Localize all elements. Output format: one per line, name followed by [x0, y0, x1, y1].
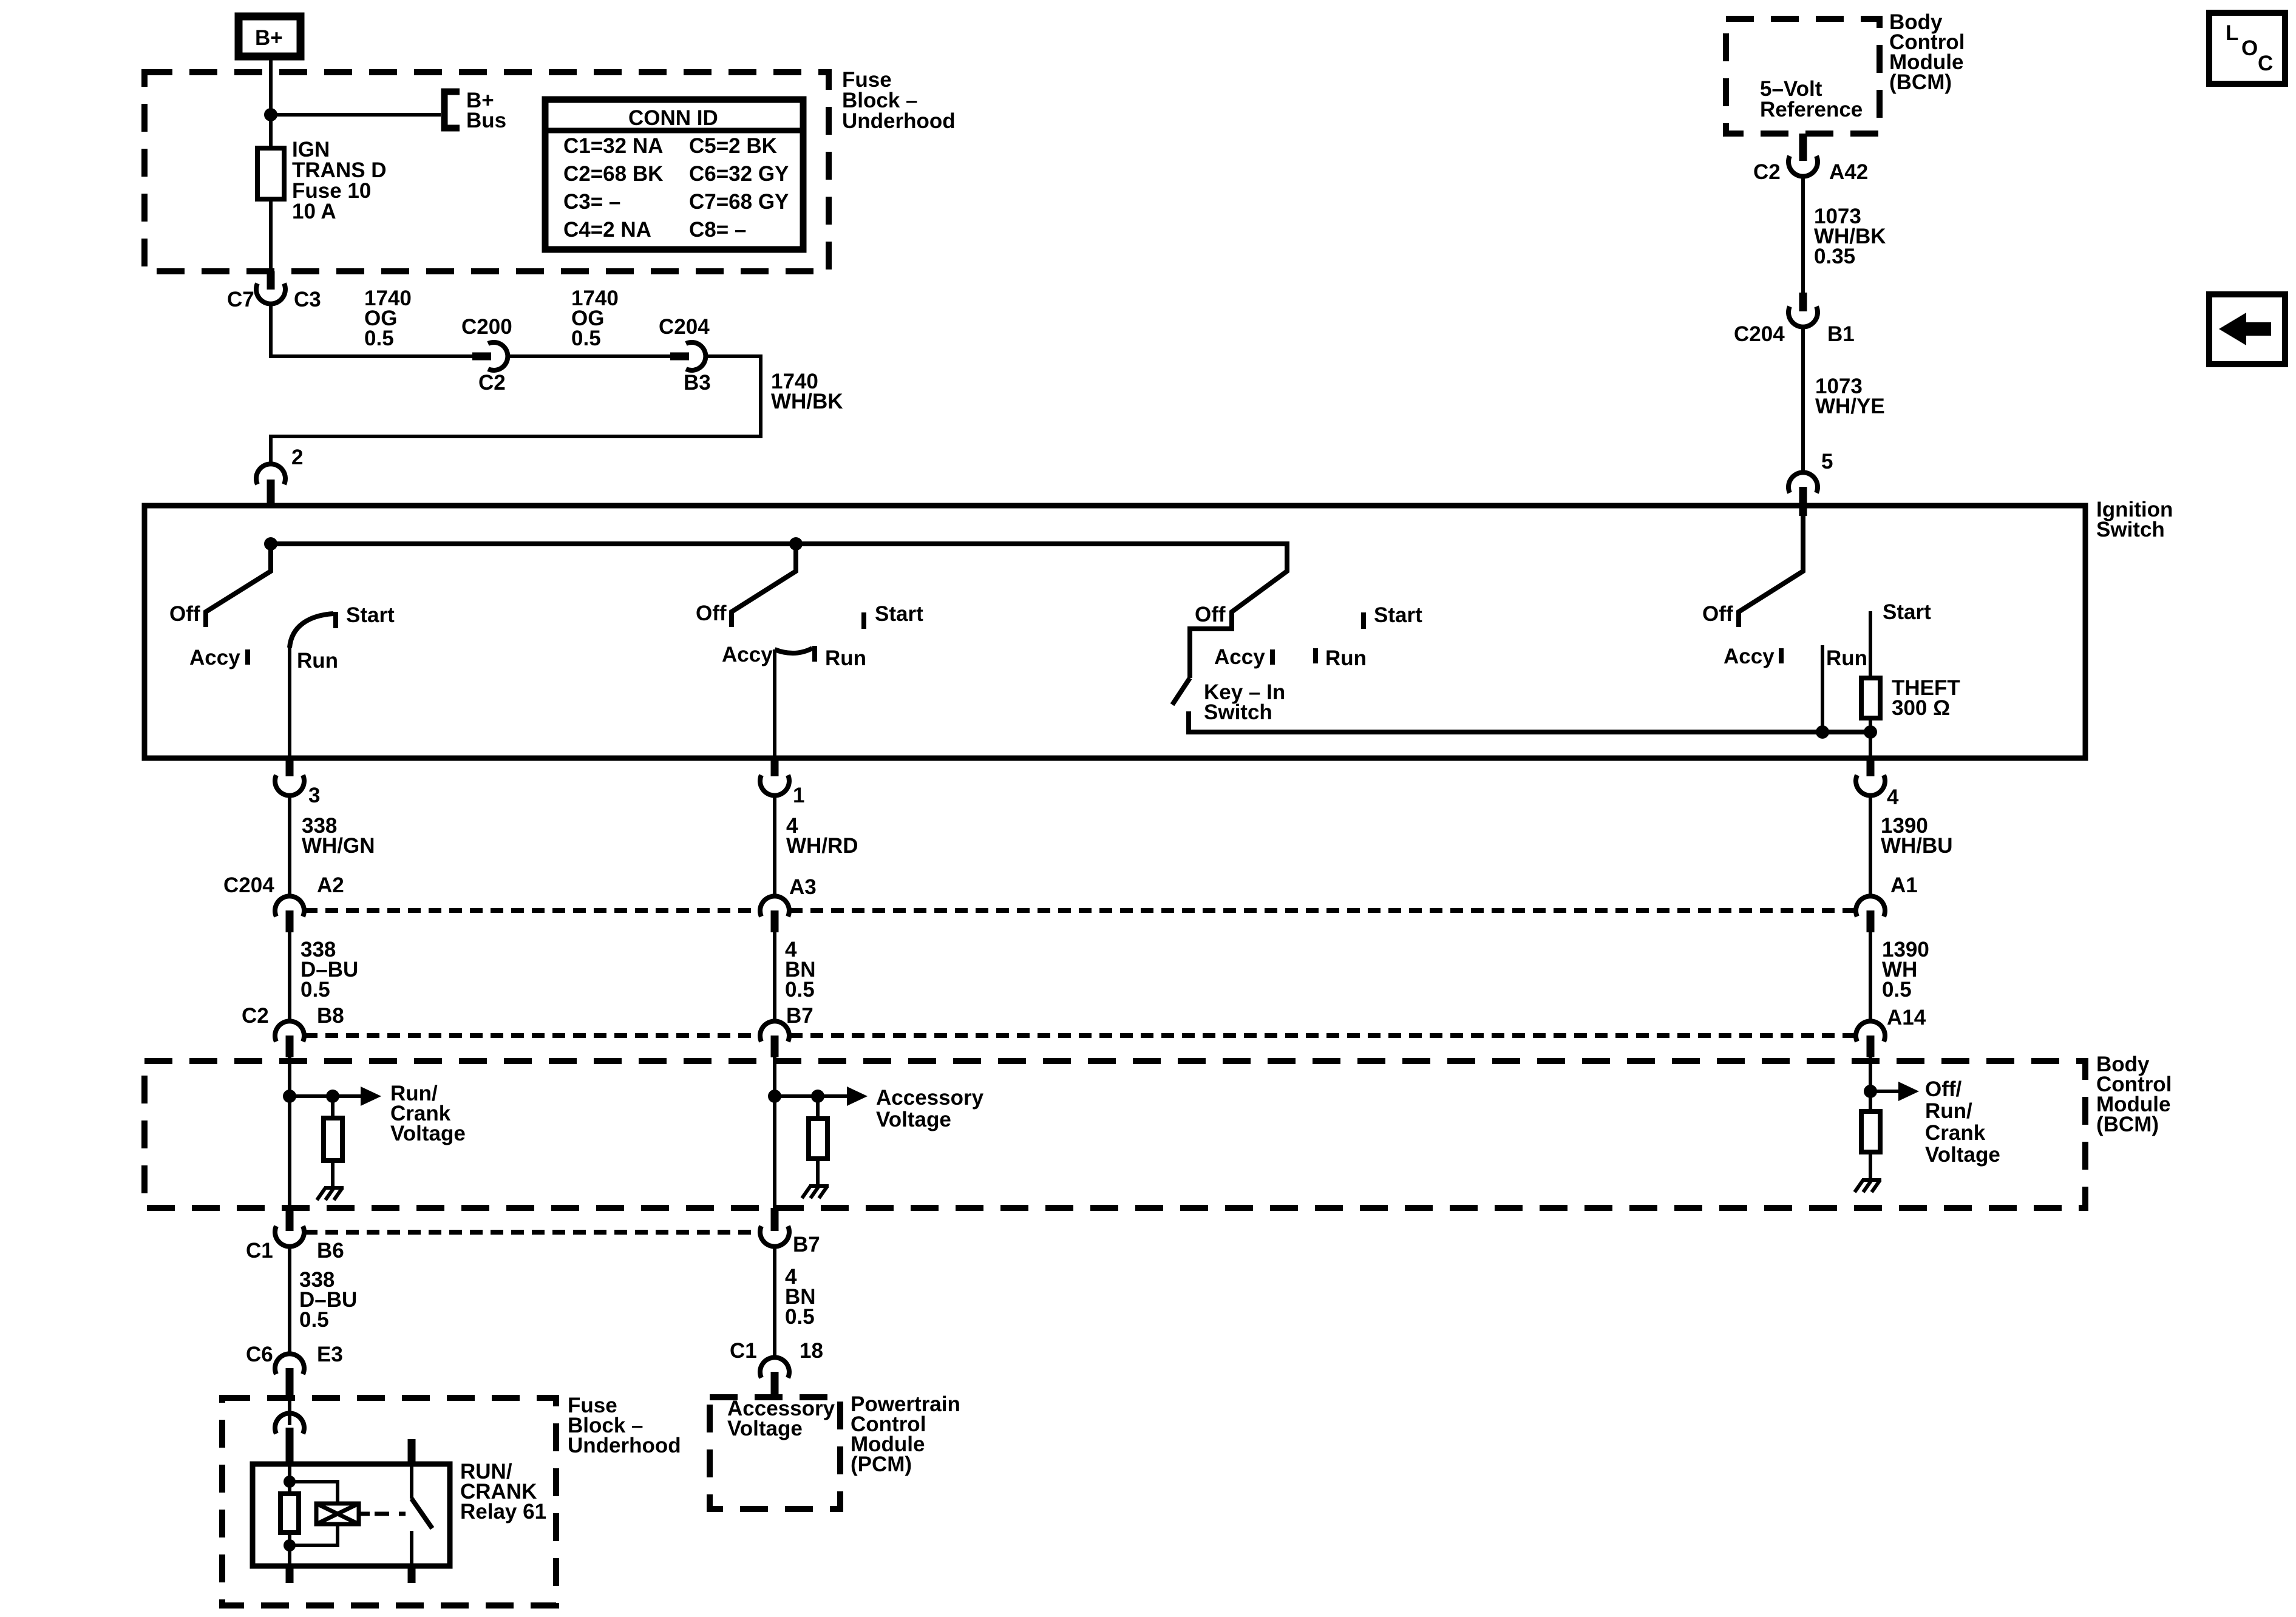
node relay bottom junction: [284, 1539, 296, 1551]
svg-text:C: C: [2258, 52, 2273, 75]
resistor BCM left: [324, 1096, 342, 1188]
relay actuator dashed link: [375, 1512, 406, 1516]
wire pole2 Accy down: [773, 649, 776, 758]
svg-text:0.5: 0.5: [1882, 978, 1912, 1002]
wire left column through BCM: [288, 1057, 291, 1208]
wire 1073 WH/YE: [1801, 327, 1805, 472]
label 4 BN 0.5: [785, 938, 816, 1002]
contact Run pole2: [812, 646, 817, 662]
label C204 B1: [1734, 322, 1855, 346]
label Accessory Voltage: [876, 1086, 984, 1131]
arrow off/run/crank voltage: [1870, 1082, 1919, 1101]
label BCM top: [1889, 10, 1965, 94]
label C204 B3: [659, 315, 711, 395]
label C7 C3: [227, 288, 321, 311]
relay pin bottom right: [408, 1566, 416, 1583]
svg-text:B+: B+: [255, 26, 283, 50]
wire right column into BCM: [1869, 1057, 1872, 1111]
svg-text:Start: Start: [875, 602, 923, 626]
fuse block underhood box (bottom): [222, 1398, 556, 1605]
svg-text:300 Ω: 300 Ω: [1892, 696, 1950, 720]
svg-text:Voltage: Voltage: [727, 1417, 803, 1440]
battery terminal B+: [239, 16, 301, 56]
label PCM: [851, 1392, 960, 1476]
svg-text:Run: Run: [1325, 646, 1367, 670]
svg-text:Run/: Run/: [1925, 1099, 1972, 1123]
svg-text:Accy: Accy: [1724, 645, 1775, 668]
svg-text:3: 3: [308, 784, 320, 807]
svg-text:C3: C3: [294, 288, 321, 311]
svg-text:Accy: Accy: [189, 646, 240, 670]
svg-text:C2: C2: [242, 1004, 269, 1028]
wire Run contact pole4: [1821, 645, 1824, 732]
label C2 B8: [242, 1004, 344, 1028]
svg-text:0.5: 0.5: [299, 1308, 329, 1332]
svg-text:Relay 61: Relay 61: [460, 1500, 546, 1524]
svg-text:Off: Off: [1195, 603, 1226, 626]
svg-text:C1: C1: [246, 1239, 273, 1263]
switch pole4 blade to Off: [1739, 506, 1803, 627]
svg-text:Bus: Bus: [466, 109, 506, 132]
connector pin 4: [1856, 758, 1885, 796]
svg-text:Accy: Accy: [1214, 645, 1265, 669]
wire 338 D-BU: [288, 932, 291, 1022]
relay solenoid X-box: [316, 1503, 359, 1524]
wire to B+ Bus: [271, 113, 441, 117]
wire internal bus: [271, 544, 1287, 678]
svg-text:WH/BU: WH/BU: [1881, 834, 1953, 858]
svg-text:18: 18: [800, 1339, 823, 1363]
key-in switch blade (open): [1172, 678, 1190, 705]
label C200 C2: [461, 315, 512, 395]
label THEFT 300: [1892, 676, 1960, 720]
svg-text:C4=2 NA: C4=2 NA: [563, 218, 651, 242]
connector A3: [760, 896, 789, 932]
contact Run pole3: [1313, 648, 1318, 663]
svg-text:A2: A2: [317, 873, 344, 897]
svg-text:WH/GN: WH/GN: [302, 834, 375, 858]
switch pole2 blade to Off: [732, 544, 796, 627]
svg-text:C2: C2: [1753, 160, 1781, 184]
connector C7/C3: [256, 271, 285, 304]
wire 4 BN: [773, 932, 776, 1022]
relay pin bottom left: [286, 1566, 294, 1583]
ground BCM left: [317, 1188, 344, 1200]
arrow box: [2209, 294, 2285, 364]
label 5-Volt Reference: [1760, 77, 1863, 121]
svg-text:Crank: Crank: [1925, 1121, 1986, 1145]
wire C204 loop down to pin 2: [271, 356, 761, 465]
node bus junction pole1: [264, 537, 277, 551]
svg-text:C8= –: C8= –: [689, 218, 746, 242]
label 338 WH/GN: [302, 814, 375, 858]
connector C204 B1: [1788, 293, 1818, 327]
svg-text:C2: C2: [478, 371, 506, 395]
contact Accy pole3: [1270, 649, 1275, 665]
relay coil branch wire: [288, 1464, 291, 1566]
node theft junction: [1864, 725, 1877, 739]
svg-text:Start: Start: [1374, 603, 1422, 627]
connector C1 18: [760, 1357, 789, 1397]
svg-text:Start: Start: [346, 603, 395, 627]
wire THEFT to junction: [1869, 718, 1872, 758]
wire 1073 WH/BK: [1801, 177, 1805, 293]
label fuse block underhood (top): [842, 68, 956, 133]
label 1390 WH 0.5: [1882, 938, 1929, 1002]
label C204 A2: [223, 873, 344, 897]
ground BCM right: [1855, 1180, 1881, 1192]
svg-text:0.5: 0.5: [301, 978, 330, 1002]
wire E3 into fuse block: [288, 1396, 291, 1425]
BCM 5-volt reference box: [1726, 19, 1880, 134]
connector C204/B3: [670, 342, 705, 370]
connector pin 2: [256, 464, 285, 506]
svg-text:C204: C204: [659, 315, 710, 339]
label 1740 OG 0.5 (1): [364, 286, 412, 350]
node run/crank junction: [283, 1090, 296, 1103]
wire 4 BN lower: [773, 1247, 776, 1358]
svg-text:Reference: Reference: [1760, 98, 1863, 121]
svg-text:B7: B7: [793, 1233, 820, 1256]
svg-text:Start: Start: [1883, 600, 1931, 624]
connector A14: [1856, 1021, 1885, 1057]
label 4 WH/RD: [786, 814, 858, 858]
svg-text:C3= –: C3= –: [563, 190, 620, 214]
connector A1: [1856, 896, 1885, 932]
svg-text:C1=32 NA: C1=32 NA: [563, 134, 663, 158]
relay solenoid branch: [290, 1482, 338, 1545]
svg-text:B1: B1: [1827, 322, 1855, 346]
svg-text:0.5: 0.5: [571, 327, 601, 350]
relay switch blade: [412, 1499, 432, 1528]
fuse block underhood box (top): [144, 72, 829, 271]
svg-text:C2=68 BK: C2=68 BK: [563, 162, 663, 186]
svg-text:Switch: Switch: [2096, 518, 2165, 541]
svg-text:Switch: Switch: [1204, 700, 1272, 724]
svg-text:Run: Run: [1826, 646, 1867, 670]
node off/run/crank junction: [1864, 1085, 1877, 1098]
wire 338 D-BU lower: [288, 1247, 291, 1355]
svg-text:C6=32 GY: C6=32 GY: [689, 162, 789, 186]
svg-text:B3: B3: [684, 371, 711, 395]
svg-text:Run: Run: [825, 646, 866, 670]
svg-text:(BCM): (BCM): [2096, 1113, 2159, 1136]
svg-text:Off/: Off/: [1925, 1077, 1962, 1101]
label Accessory Voltage PCM: [727, 1397, 835, 1440]
arrow accessory voltage: [775, 1086, 868, 1106]
svg-text:A1: A1: [1890, 873, 1918, 897]
svg-text:Off: Off: [696, 602, 727, 625]
svg-text:B6: B6: [317, 1239, 344, 1263]
svg-text:C200: C200: [461, 315, 512, 339]
wire B+ to fuse: [269, 56, 273, 152]
switch pole1 Run-Start curve: [290, 614, 333, 648]
svg-text:0.5: 0.5: [785, 1305, 815, 1329]
label Run/Crank Voltage: [390, 1082, 466, 1145]
connector pin 3: [275, 758, 304, 796]
svg-text:0.5: 0.5: [364, 327, 394, 350]
LOC box: [2209, 13, 2285, 84]
svg-text:C1: C1: [730, 1339, 757, 1363]
wire 1390 WH/BU: [1869, 796, 1872, 897]
wire relay coil to actuator: [359, 1512, 370, 1516]
label Key-In Switch: [1204, 680, 1285, 724]
node run junction: [1816, 725, 1829, 739]
node accessory junction: [768, 1090, 781, 1103]
svg-text:0.5: 0.5: [785, 978, 815, 1002]
relay box RUN/CRANK Relay 61: [253, 1464, 450, 1566]
svg-text:A3: A3: [789, 875, 817, 899]
svg-text:(PCM): (PCM): [851, 1453, 912, 1476]
wire fuse to C200: [271, 303, 472, 356]
svg-text:10 A: 10 A: [292, 200, 336, 223]
label Off/Run/Crank Voltage: [1925, 1077, 2000, 1167]
svg-text:2: 2: [291, 446, 303, 469]
BCM box: [144, 1061, 2085, 1208]
label C2 A42: [1753, 160, 1868, 184]
label C1 18: [730, 1339, 823, 1363]
svg-text:4: 4: [1887, 785, 1899, 809]
switch pole1 blade to Off: [206, 544, 271, 627]
svg-text:Voltage: Voltage: [1925, 1143, 2000, 1167]
svg-text:B7: B7: [786, 1004, 813, 1028]
wire pin1 column: [760, 758, 789, 796]
relay switch fixed bottom: [410, 1531, 413, 1566]
svg-text:L: L: [2226, 21, 2238, 45]
svg-text:Voltage: Voltage: [876, 1108, 951, 1131]
svg-text:WH/RD: WH/RD: [786, 834, 858, 858]
connector C2 B8: [275, 1021, 304, 1057]
wire middle column through BCM: [773, 1057, 776, 1208]
contact Start pole3: [1361, 612, 1366, 629]
label 4 BN 0.5 lower: [785, 1265, 816, 1329]
resistor BCM middle: [809, 1096, 827, 1186]
svg-text:C204: C204: [1734, 322, 1785, 346]
svg-text:C5=2 BK: C5=2 BK: [689, 134, 777, 158]
label fuse: [292, 138, 387, 223]
label 1073 WH/BK 0.35: [1814, 205, 1886, 268]
svg-text:Off: Off: [169, 602, 200, 626]
svg-text:5: 5: [1821, 450, 1833, 473]
wire pole1 Run down: [288, 646, 291, 758]
svg-text:1: 1: [793, 784, 804, 807]
label 338 D-BU 0.5: [301, 938, 358, 1002]
resistor BCM right: [1861, 1111, 1880, 1180]
svg-text:C6: C6: [246, 1343, 273, 1366]
svg-text:Off: Off: [1702, 602, 1733, 626]
node bus junction pole2: [789, 537, 803, 551]
switch pole2 Accy-Run curve: [775, 648, 812, 653]
svg-text:E3: E3: [317, 1343, 343, 1366]
relay switch pin top: [408, 1439, 416, 1464]
svg-text:A42: A42: [1829, 160, 1868, 184]
svg-text:Accessory: Accessory: [876, 1086, 984, 1110]
contact Start pole2: [861, 612, 866, 629]
connector B7 below BCM: [760, 1208, 789, 1247]
connector C204 A2: [275, 896, 304, 932]
wire 1390 WH: [1869, 932, 1872, 1022]
label Ignition Switch: [2096, 498, 2173, 541]
CONN ID table: [545, 100, 803, 249]
svg-text:0.35: 0.35: [1814, 245, 1855, 268]
resistor relay coil: [280, 1494, 299, 1533]
contact Start pole1: [333, 612, 338, 628]
svg-text:WH/BK: WH/BK: [771, 390, 843, 413]
connector row line 3: [305, 1230, 759, 1235]
label BCM right: [2096, 1053, 2172, 1136]
svg-text:Voltage: Voltage: [390, 1122, 466, 1145]
svg-text:O: O: [2241, 36, 2258, 60]
connector row line 1: [305, 908, 1855, 913]
label C1 B6: [246, 1239, 344, 1263]
node relay top junction: [284, 1476, 296, 1488]
label 1740 OG 0.5 (2): [571, 286, 619, 350]
svg-text:C7: C7: [227, 288, 254, 311]
resistor THEFT 300 ohm: [1861, 678, 1880, 718]
arrow run/crank voltage: [290, 1086, 381, 1106]
connector C1 B6: [275, 1208, 304, 1247]
wire 338 WH/GN: [288, 796, 291, 897]
svg-text:CONN ID: CONN ID: [628, 106, 718, 130]
svg-text:B8: B8: [317, 1004, 344, 1028]
contact Accy pole4: [1779, 648, 1784, 663]
connector relay coil pin: [275, 1413, 304, 1464]
label 1740 WH/BK: [771, 370, 843, 413]
PCM box: [710, 1397, 840, 1509]
wire C200 to C204: [506, 354, 670, 358]
label RUN/CRANK Relay 61: [460, 1460, 546, 1524]
fuse IGN TRANS D Fuse 10: [257, 148, 284, 271]
label C6 E3: [246, 1343, 343, 1366]
connector pin 5: [1788, 472, 1818, 516]
label 1390 WH/BU: [1881, 814, 1953, 858]
wire key-in lower contact to theft junction: [1189, 711, 1870, 732]
svg-text:Underhood: Underhood: [842, 109, 956, 133]
contact Accy pole1: [245, 649, 250, 665]
label fuse block underhood (bottom): [568, 1394, 681, 1457]
connector row line 2: [305, 1033, 1855, 1038]
wire 4 WH/RD: [773, 796, 776, 897]
label 338 D-BU 0.5 lower: [299, 1268, 357, 1332]
svg-text:C204: C204: [223, 873, 274, 897]
svg-text:C7=68 GY: C7=68 GY: [689, 190, 789, 214]
connector B7 row2: [760, 1021, 789, 1057]
relay switch fixed top: [410, 1464, 413, 1499]
svg-text:Underhood: Underhood: [568, 1434, 681, 1457]
B+ Bus terminal bracket: [444, 92, 460, 128]
svg-text:Run: Run: [297, 649, 338, 673]
ground BCM middle: [802, 1186, 829, 1198]
ignition switch box: [144, 506, 2085, 758]
node junction B+ bus: [264, 108, 277, 121]
svg-text:WH/YE: WH/YE: [1815, 395, 1885, 418]
svg-text:Accy: Accy: [722, 643, 773, 666]
connector C200/C2: [472, 342, 508, 370]
wire Start contact pole4: [1869, 611, 1872, 680]
connector C2 A42: [1788, 134, 1818, 177]
svg-text:A14: A14: [1887, 1006, 1926, 1029]
label 1073 WH/YE: [1815, 375, 1885, 418]
connector C6 E3: [275, 1354, 304, 1396]
svg-text:(BCM): (BCM): [1889, 70, 1952, 94]
label B+ Bus: [466, 89, 506, 132]
